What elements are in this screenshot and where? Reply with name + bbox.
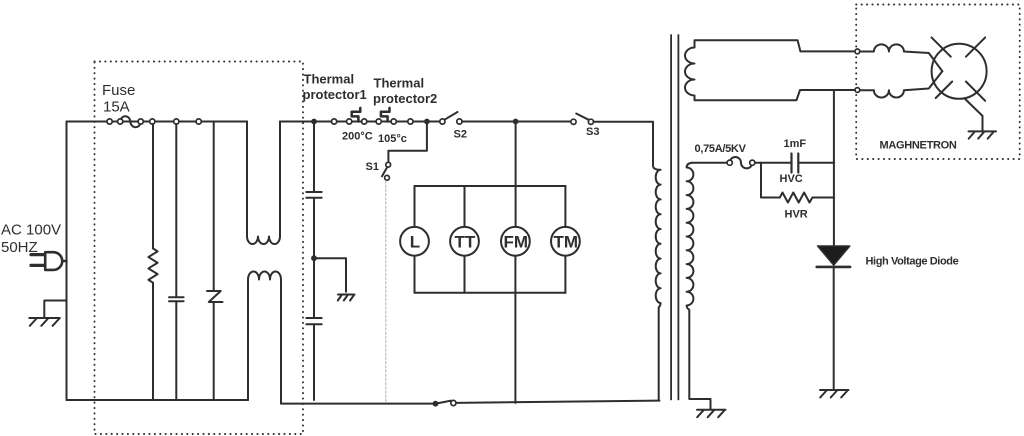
- label 105c: [378, 133, 407, 145]
- wire: bottom-left rail: [67, 399, 249, 401]
- magnetron filament choke bottom: [860, 71, 943, 97]
- transformer secondary HV winding: [687, 163, 711, 410]
- label 0,75A/5KV: [695, 143, 747, 155]
- wire: magnetron to ground: [965, 99, 983, 132]
- timer motor TM: [551, 227, 580, 256]
- terminal: [138, 119, 143, 124]
- resistor HVR: [780, 193, 834, 203]
- switch S1: [382, 167, 387, 176]
- svg-text:200°C: 200°C: [342, 131, 373, 143]
- magnetron enclosure dotted box: [856, 5, 1020, 160]
- wire: S1 dashed gray drop: [385, 181, 387, 403]
- terminal S1 bottom: [385, 175, 390, 180]
- terminal: [332, 119, 337, 124]
- wire: top wire left section: [67, 121, 248, 123]
- ground (chassis) magnetron: [969, 131, 997, 138]
- wire: HV lead from filament to diode node: [833, 90, 835, 247]
- terminal: [750, 160, 755, 165]
- wire: ground branch: [314, 258, 346, 292]
- magnetron anode stroke lower-left: [936, 82, 953, 99]
- label AC 100V 50HZ: [1, 222, 61, 257]
- wire: top wire S2 to S3: [462, 121, 571, 123]
- terminal S2 left: [440, 119, 445, 124]
- node: door switch pivot: [433, 401, 439, 407]
- terminal: [150, 119, 155, 124]
- wire: fuse to HVC: [755, 162, 791, 164]
- svg-text:Thermal: Thermal: [304, 72, 355, 87]
- terminal S1 top: [386, 162, 391, 167]
- svg-text:MAGHNETRON: MAGHNETRON: [880, 140, 957, 152]
- wire: ground tap from feed: [44, 301, 66, 318]
- wire: fan motor branch: [514, 122, 516, 403]
- transformer core: [671, 35, 678, 400]
- wire: left vertical feed: [66, 122, 68, 401]
- terminal magnetron bottom: [855, 88, 860, 93]
- terminal: [174, 119, 179, 124]
- switch S3: [576, 114, 590, 121]
- wire: S1 branch: [388, 122, 427, 163]
- wire: S3 to transformer primary: [594, 122, 654, 124]
- terminal: [391, 119, 396, 124]
- thermal protector 1 (200C): [352, 108, 361, 122]
- resistor (filter bleeder): [148, 124, 157, 400]
- wire: bottom rail to transformer: [456, 401, 660, 403]
- choke coil top (line side): [247, 122, 280, 245]
- label S2: [454, 129, 467, 141]
- label Thermal protector2: [373, 76, 437, 107]
- terminal S3 left: [571, 119, 576, 124]
- capacitor (filter): [169, 124, 184, 400]
- transformer filament winding and leads: [685, 40, 857, 100]
- svg-text:TT: TT: [455, 233, 476, 252]
- terminal S3 right: [588, 119, 593, 124]
- label MAGHNETRON: [880, 140, 957, 152]
- AC plug P1: [31, 252, 67, 270]
- ground (chassis) small mid: [338, 295, 355, 301]
- wire: HVC to HV node: [798, 162, 834, 164]
- label HVR: [785, 209, 808, 221]
- magnetron anode stroke upper-left: [932, 37, 951, 56]
- node: junction to line capacitors: [311, 119, 317, 125]
- svg-text:S2: S2: [454, 129, 467, 141]
- terminal: [107, 119, 112, 124]
- label S1: [366, 161, 379, 173]
- wire: timer motor branch: [564, 186, 566, 293]
- motor cluster frame bottom: [415, 292, 566, 294]
- capacitor HVC 1mF: [792, 154, 799, 173]
- svg-text:L: L: [410, 233, 420, 252]
- svg-text:High Voltage Diode: High Voltage Diode: [866, 256, 959, 268]
- turntable motor TT: [450, 227, 479, 256]
- varistor Z: [207, 122, 223, 401]
- node: junction to ground: [311, 255, 317, 261]
- terminal: [362, 119, 367, 124]
- terminal: [376, 119, 381, 124]
- choke coil bottom (neutral side): [248, 272, 281, 404]
- svg-text:105°c: 105°c: [378, 133, 407, 145]
- wire: HVR branch: [761, 163, 780, 198]
- svg-text:HVR: HVR: [785, 209, 808, 221]
- transformer primary winding: [653, 122, 661, 401]
- node: junction to S1: [424, 119, 430, 125]
- fuse HV 0,75A/5KV: [730, 157, 753, 168]
- svg-text:FM: FM: [504, 233, 529, 252]
- terminal S2 right: [457, 119, 462, 124]
- svg-text:Fuse: Fuse: [102, 82, 135, 99]
- ground (chassis) diode: [820, 390, 849, 398]
- svg-text:15A: 15A: [103, 99, 130, 116]
- wire: secondary to HV fuse: [692, 162, 727, 164]
- terminal door switch: [451, 400, 456, 405]
- diode cathode bar: [817, 266, 850, 269]
- label S3: [586, 126, 599, 138]
- label Thermal protector1: [303, 72, 367, 103]
- wire: bottom rail right section: [281, 403, 434, 405]
- diode D1 high voltage (anode triangle): [818, 246, 850, 265]
- label Fuse 15A: [102, 82, 135, 116]
- magnetron anode stroke upper-right: [966, 37, 985, 56]
- wire: top wire after choke: [280, 121, 440, 123]
- capacitor (line to ground) lower: [306, 318, 321, 400]
- ground (chassis) at mains: [29, 318, 60, 326]
- label High Voltage Diode: [866, 256, 959, 268]
- magnetron filament choke top: [860, 44, 943, 71]
- svg-text:HVC: HVC: [780, 173, 803, 185]
- magnetron tube circle: [932, 44, 987, 99]
- label 200C: [342, 131, 373, 143]
- terminal: [727, 160, 732, 165]
- terminal: [118, 119, 123, 124]
- lamp L: [400, 227, 429, 256]
- capacitor (line to ground) upper: [306, 192, 321, 318]
- wire: lamp branch: [414, 186, 416, 293]
- ground (chassis) transformer: [697, 410, 726, 418]
- svg-text:protector1: protector1: [303, 87, 367, 102]
- motor cluster frame top: [415, 185, 566, 187]
- terminal: [196, 119, 201, 124]
- thermal protector 2 (105c): [381, 108, 390, 122]
- node: junction to motors: [513, 119, 519, 125]
- svg-text:S3: S3: [586, 126, 599, 138]
- fan motor FM: [501, 227, 530, 256]
- svg-text:0,75A/5KV: 0,75A/5KV: [695, 143, 747, 155]
- label HVC: [780, 173, 803, 185]
- terminal: [408, 119, 413, 124]
- noise filter enclosure dotted box: [95, 62, 304, 435]
- svg-text:protector2: protector2: [373, 91, 437, 106]
- svg-text:AC 100V: AC 100V: [1, 222, 61, 239]
- switch S2: [444, 112, 458, 120]
- magnetron anode stroke lower-right: [966, 82, 985, 101]
- svg-text:Thermal: Thermal: [374, 76, 425, 91]
- fuse F1 15A: [120, 116, 141, 127]
- terminal: [347, 119, 352, 124]
- terminal magnetron top: [855, 49, 860, 54]
- wire: diode to ground: [833, 267, 835, 389]
- svg-text:TM: TM: [554, 233, 579, 252]
- wire: turntable branch: [464, 186, 466, 293]
- wire: capacitor branch down: [313, 122, 315, 192]
- label 1mF: [784, 138, 807, 150]
- svg-text:1mF: 1mF: [784, 138, 807, 150]
- switch door interlock: [437, 401, 451, 404]
- svg-text:S1: S1: [366, 161, 379, 173]
